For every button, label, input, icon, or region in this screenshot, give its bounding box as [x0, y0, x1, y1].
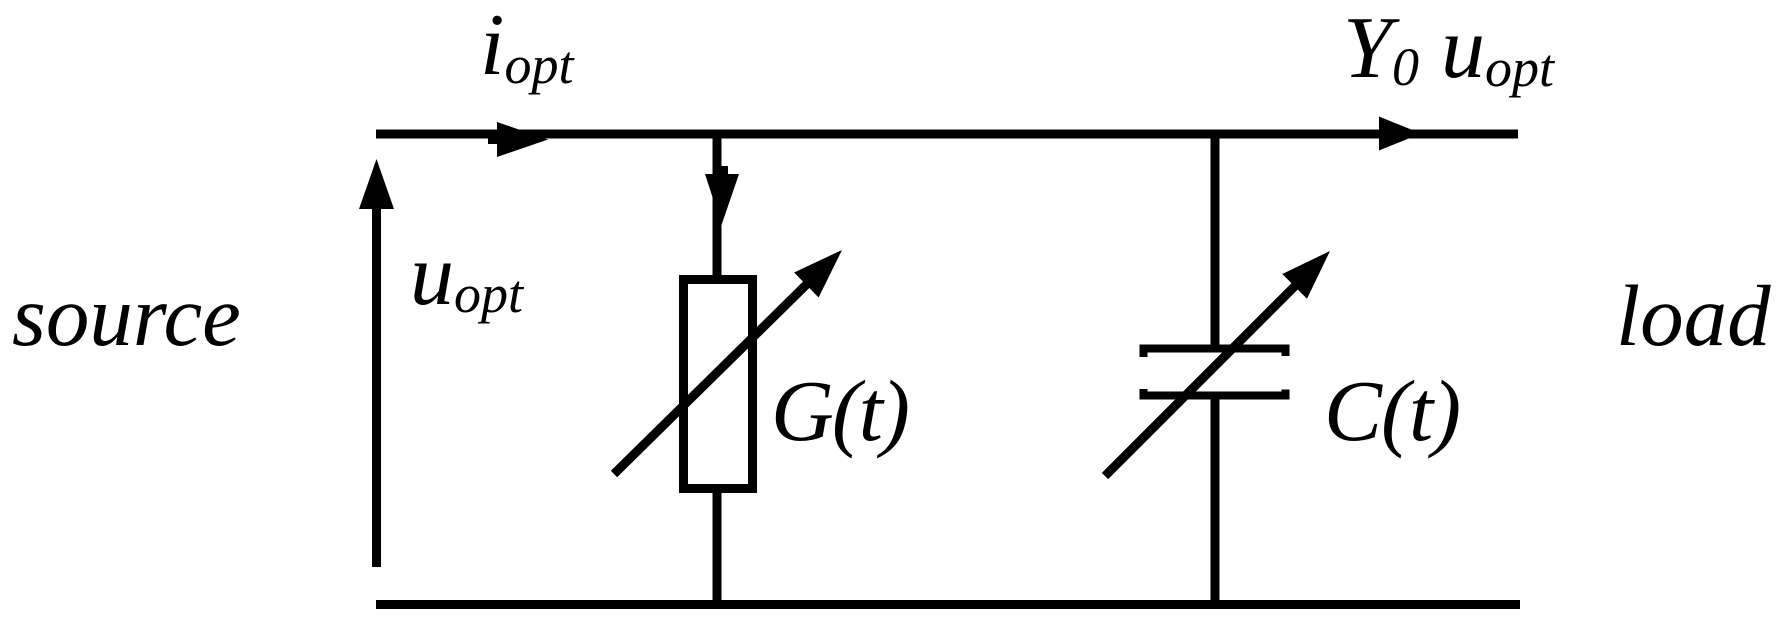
variability arrow through C(t) [1105, 251, 1330, 476]
svg-text:load: load [1616, 267, 1771, 364]
capacitor C(t) top plate [1144, 349, 1286, 358]
arrowhead down into G branch [705, 174, 739, 225]
capacitor C(t) bottom plate [1144, 389, 1286, 396]
arrowhead output current Y0*u_opt on top wire [1379, 117, 1421, 151]
svg-text:G(t): G(t) [771, 362, 908, 459]
wire bottom bus [376, 600, 1520, 609]
wire branch G upper segment [713, 134, 722, 280]
resistor G(t) body [684, 280, 753, 489]
arrowhead current i_opt on top wire [488, 122, 548, 157]
variability arrow through G(t) [614, 250, 842, 474]
voltage arrow u_opt (source) [359, 159, 394, 567]
wire branch G lower segment [713, 490, 722, 604]
wire top bus [376, 130, 1518, 139]
wire branch C upper segment [1211, 134, 1220, 352]
wire branch C lower segment [1211, 393, 1220, 604]
svg-text:C(t): C(t) [1324, 362, 1460, 459]
svg-text:source: source [12, 267, 241, 364]
